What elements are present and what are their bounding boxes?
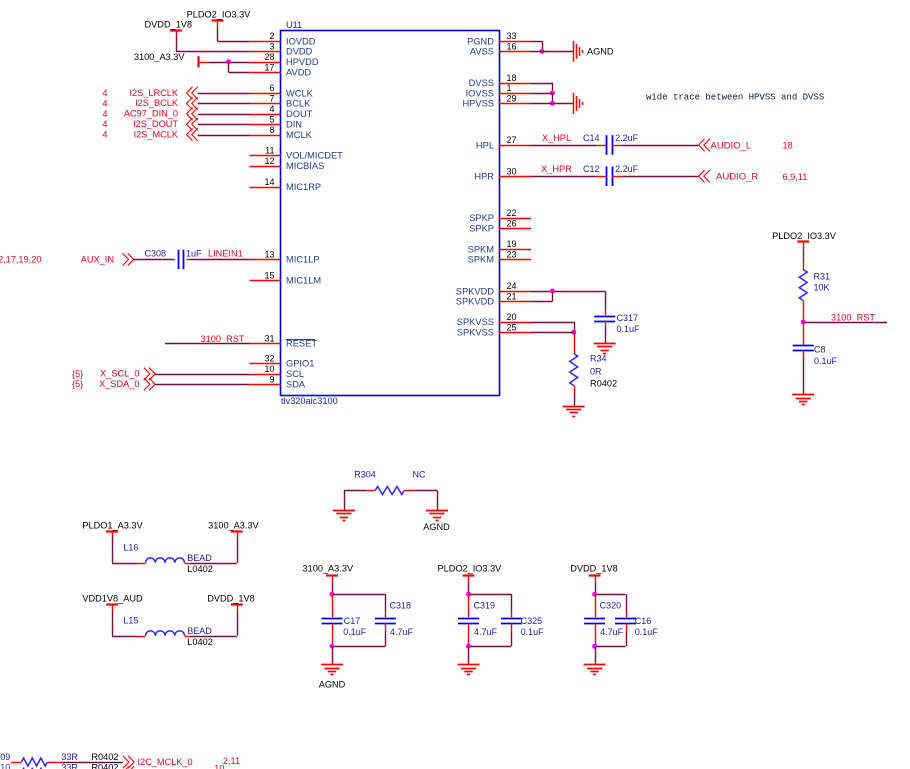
svg-text:AGND: AGND — [423, 522, 450, 532]
svg-text:30: 30 — [507, 166, 517, 176]
svg-text:4: 4 — [269, 104, 274, 114]
pin 9 SDA — [250, 374, 306, 389]
svg-text:AC97_DIN_0: AC97_DIN_0 — [124, 109, 178, 119]
wire R304 to AGND — [404, 491, 437, 511]
svg-text:I2C_MCLK_0: I2C_MCLK_0 — [138, 757, 193, 767]
svg-text:HPVDD: HPVDD — [286, 57, 319, 67]
node junction bottom (group DVDD_1V8) — [592, 644, 597, 649]
svg-text:AUDIO_L: AUDIO_L — [711, 140, 752, 151]
pin 20 SPKVSS — [457, 312, 531, 327]
svg-text:32: 32 — [264, 354, 274, 364]
wire R31 to junction — [803, 301, 805, 323]
svg-text:AGND: AGND — [587, 47, 614, 57]
port AUDIO_R with sheet refs 6,9,11 — [699, 170, 808, 183]
capacitor C308 1uF — [145, 248, 203, 269]
net label 3100_RST (pullup) — [831, 313, 875, 323]
svg-text:6,9,11: 6,9,11 — [783, 172, 808, 182]
svg-text:0.1uF: 0.1uF — [617, 324, 641, 334]
svg-text:10K: 10K — [814, 282, 830, 292]
svg-text:SPKVSS: SPKVSS — [457, 328, 494, 338]
svg-text:PGND: PGND — [467, 36, 494, 46]
wire X_SCL_0 to pin — [155, 374, 249, 376]
wire to ground (group DVDD_1V8) — [595, 646, 597, 664]
svg-text:L0402: L0402 — [187, 637, 213, 647]
power symbol 3100_A3.3V (cap group) — [303, 564, 354, 583]
svg-text:SPKVSS: SPKVSS — [457, 317, 494, 327]
wire AVSS net to AGND symbol — [531, 51, 573, 53]
port I2S_DOUT with sheet ref 4 — [102, 118, 197, 130]
svg-text:BEAD: BEAD — [187, 553, 212, 563]
wire I2S_MCLK to pin — [198, 135, 250, 137]
wire bottom rail (group DVDD_1V8) — [595, 624, 627, 647]
wire 3100_RST to right edge — [803, 322, 887, 324]
inductor L15 BEAD L0402 — [123, 616, 212, 648]
node junction bottom (group PLDO2_IO3.3V) — [466, 644, 471, 649]
svg-text:PLDO2_IO3.3V: PLDO2_IO3.3V — [437, 564, 502, 574]
svg-text:33R: 33R — [61, 762, 78, 769]
wire DVDD_1V8 to pin 3 — [176, 38, 250, 52]
pin 19 SPKM — [468, 239, 531, 254]
port X_SCL_0 with sheet ref {5} — [72, 368, 155, 380]
wire 3100_A3.3V rail — [332, 583, 334, 594]
svg-text:12: 12 — [264, 156, 274, 166]
capacitor C14 2.2uF — [583, 133, 639, 155]
pin 15 MIC1LM — [250, 270, 322, 285]
svg-text:X_HPL: X_HPL — [542, 133, 571, 143]
svg-text:7: 7 — [269, 94, 274, 104]
net label 3100_RST at RESET — [201, 334, 245, 344]
wire 3100_RST to pin 31 RESET — [165, 343, 250, 345]
ground below C317 — [594, 344, 616, 354]
svg-text:PLDO2_IO3.3V: PLDO2_IO3.3V — [772, 231, 837, 241]
svg-text:0.1uF: 0.1uF — [343, 627, 367, 637]
svg-text:19: 19 — [507, 239, 517, 249]
wire DVDD_1V8 rail — [595, 583, 597, 594]
svg-text:DVDD_1V8: DVDD_1V8 — [145, 20, 193, 30]
capacitor C12 2.2uF — [583, 164, 639, 186]
pin 6 WCLK — [250, 83, 314, 98]
svg-text:L16: L16 — [123, 543, 138, 553]
svg-text:22: 22 — [507, 208, 517, 218]
resistor R34 0R R0402 — [570, 354, 617, 389]
pin 29 HPVSS — [462, 94, 531, 109]
pin 17 AVDD — [250, 62, 312, 77]
wire C14 to port AUDIO_L — [612, 145, 699, 147]
node junction top (group 3100_A3.3V) — [330, 592, 335, 597]
svg-text:9: 9 — [269, 374, 274, 384]
svg-text:SPKP: SPKP — [469, 224, 494, 234]
wire pin 21 SPKVDD up — [531, 291, 553, 302]
svg-text:VOL/MICDET: VOL/MICDET — [286, 151, 343, 161]
pin 14 MIC1RP — [250, 177, 322, 192]
power symbol DVDD_1V8 (cap group) — [570, 564, 618, 583]
wire to ground (group 3100_A3.3V) — [332, 646, 334, 664]
wire I2S_BCLK to pin — [198, 103, 250, 105]
svg-text:C325: C325 — [521, 616, 543, 626]
svg-text:SPKVDD: SPKVDD — [456, 297, 495, 307]
wire to ground (group PLDO2_IO3.3V) — [468, 646, 470, 664]
svg-text:MCLK: MCLK — [286, 130, 313, 140]
svg-text:C317: C317 — [617, 313, 639, 323]
capacitor C325 0.1uF — [501, 616, 544, 637]
resistor R310 33R R0402 (row clipped at bottom) — [0, 762, 118, 769]
pin 2 IOVDD — [250, 31, 316, 46]
wire I2S_LRCLK to pin — [198, 93, 250, 95]
svg-text:BCLK: BCLK — [286, 99, 311, 109]
svg-text:WCLK: WCLK — [286, 88, 314, 98]
power symbol VDD1V8_AUD — [82, 594, 143, 611]
svg-text:3100_A3.3V: 3100_A3.3V — [303, 564, 354, 574]
svg-text:C318: C318 — [390, 600, 412, 610]
svg-text:4.7uF: 4.7uF — [600, 627, 624, 637]
svg-text:3100_A3.3V: 3100_A3.3V — [208, 520, 259, 530]
svg-text:C308: C308 — [145, 248, 167, 258]
svg-text:0.1uF: 0.1uF — [521, 627, 545, 637]
svg-text:5: 5 — [269, 114, 274, 124]
port AUX_IN with sheet refs 2,17,19,20 — [0, 253, 134, 265]
pin 7 BCLK — [250, 94, 312, 109]
svg-text:29: 29 — [507, 94, 517, 104]
capacitor C16 0.1uF — [615, 616, 658, 637]
svg-text:2.2uF: 2.2uF — [615, 133, 639, 143]
svg-text:X_SCL_0: X_SCL_0 — [100, 369, 139, 379]
wire I2S_DOUT to pin — [198, 124, 250, 126]
svg-text:IOVDD: IOVDD — [286, 36, 316, 46]
pin 32 GPIO1 — [250, 354, 315, 369]
svg-text:1uF: 1uF — [186, 248, 202, 258]
power symbol DVDD_1V8 — [145, 20, 193, 39]
wire L15 to DVDD_1V8 — [185, 604, 238, 637]
node junction SPKVSS — [571, 330, 576, 335]
svg-text:MICBIAS: MICBIAS — [286, 161, 324, 171]
svg-text:4: 4 — [102, 88, 107, 98]
svg-text:AUDIO_R: AUDIO_R — [716, 172, 758, 183]
svg-text:{5}: {5} — [72, 379, 83, 389]
svg-text:X_HPR: X_HPR — [541, 164, 572, 174]
wire AC97_DIN_0 to pin — [198, 114, 250, 116]
wire junction to R34 — [574, 332, 576, 353]
svg-text:11: 11 — [265, 146, 274, 156]
node junction top (group DVDD_1V8) — [592, 592, 597, 597]
op-amp U11 tlv320aic3100 IC body — [281, 20, 500, 406]
svg-text:3100_A3.3V: 3100_A3.3V — [134, 52, 185, 62]
pin 25 SPKVSS — [457, 322, 531, 337]
svg-text:R0402: R0402 — [590, 378, 617, 388]
svg-text:3100_RST: 3100_RST — [201, 334, 245, 344]
svg-text:R31: R31 — [814, 272, 831, 282]
svg-text:tlv320aic3100: tlv320aic3100 — [281, 396, 338, 406]
port X_SDA_0 with sheet ref {5} — [72, 378, 155, 390]
ground below R34 — [563, 407, 585, 417]
svg-text:13: 13 — [264, 250, 274, 260]
svg-text:2,17,19,20: 2,17,19,20 — [0, 255, 41, 265]
node junction IOVSS — [550, 91, 555, 96]
wire VDD1V8_AUD to L15 — [112, 611, 146, 637]
svg-text:HPL: HPL — [476, 140, 494, 150]
wire PLDO2_IO3.3V to pin 2 — [217, 28, 249, 42]
wire left ground to R304 — [344, 491, 375, 511]
svg-text:8: 8 — [269, 125, 274, 135]
net label X_HPR — [541, 164, 572, 174]
ground below group DVDD_1V8 — [584, 665, 606, 675]
svg-text:SPKP: SPKP — [469, 213, 494, 223]
svg-text:BEAD: BEAD — [187, 626, 212, 636]
pin 1 IOVSS — [466, 83, 531, 98]
svg-text:6: 6 — [269, 83, 274, 93]
ground below C8 — [792, 395, 814, 405]
svg-text:3: 3 — [269, 42, 274, 52]
svg-text:I2S_MCLK: I2S_MCLK — [134, 129, 179, 139]
svg-text:4: 4 — [102, 130, 107, 140]
svg-text:PLDO1_A3.3V: PLDO1_A3.3V — [82, 520, 143, 530]
wire bottom rail (group PLDO2_IO3.3V) — [469, 624, 512, 647]
svg-text:1: 1 — [507, 83, 512, 93]
wire junction to C8 — [803, 322, 805, 345]
port I2S_BCLK with sheet ref 4 — [102, 97, 197, 109]
power symbol DVDD_1V8 (L15) — [207, 594, 255, 605]
svg-text:R0402: R0402 — [91, 752, 118, 762]
svg-text:17: 17 — [264, 62, 274, 72]
port AC97_DOUT_0 with sheet ref 10 — [123, 764, 225, 769]
svg-text:20: 20 — [507, 312, 517, 322]
svg-text:R310: R310 — [0, 762, 10, 769]
wire left cap leads — [332, 594, 334, 617]
note wide trace between HPVSS and DVSS — [646, 93, 824, 103]
pin 5 DIN — [250, 114, 303, 129]
ground left of R304 — [333, 511, 355, 521]
pin 33 PGND — [467, 31, 531, 46]
svg-text:C14: C14 — [583, 133, 600, 143]
svg-text:SPKM: SPKM — [468, 255, 494, 265]
node junction top (group PLDO2_IO3.3V) — [466, 592, 471, 597]
wire pin 25 SPKVSS — [531, 332, 574, 334]
svg-text:DVDD: DVDD — [286, 47, 313, 57]
svg-text:C319: C319 — [474, 600, 496, 610]
wire pin 33 PGND down to AVSS net — [531, 41, 543, 51]
svg-text:R34: R34 — [590, 354, 607, 364]
svg-text:DIN: DIN — [286, 120, 302, 130]
svg-text:MIC1LP: MIC1LP — [286, 255, 320, 265]
wire pin 24 SPKVDD to C317 — [531, 291, 605, 293]
pin 8 MCLK — [250, 125, 313, 140]
svg-text:R309: R309 — [0, 752, 10, 762]
wire power to R31 — [803, 250, 805, 270]
wire top rail to right cap — [332, 594, 386, 617]
svg-text:LINEIN1: LINEIN1 — [208, 248, 243, 258]
svg-text:4: 4 — [102, 109, 107, 119]
svg-text:26: 26 — [507, 218, 517, 228]
svg-text:C16: C16 — [635, 616, 652, 626]
net label LINEIN1 — [208, 248, 243, 258]
wire pin 29 HPVSS to ground — [531, 103, 573, 105]
svg-text:wide trace between HPVSS and D: wide trace between HPVSS and DVSS — [646, 93, 824, 103]
net label X_HPL — [542, 133, 571, 143]
wire R309 to port I2C_MCLK_0 — [61, 762, 123, 764]
ground below group 3100_A3.3V — [319, 665, 346, 690]
svg-text:10: 10 — [264, 364, 274, 374]
resistor R304 NC — [354, 469, 426, 494]
svg-text:I2S_LRCLK: I2S_LRCLK — [129, 88, 178, 98]
node junction AVSS/PGND — [540, 49, 545, 54]
node junction SPKVDD — [550, 289, 555, 294]
svg-text:R304: R304 — [354, 469, 376, 479]
wire pin 1 IOVSS — [531, 93, 553, 103]
wire pin to C14 — [531, 145, 606, 147]
svg-text:14: 14 — [264, 177, 274, 187]
pin 22 SPKP — [469, 208, 531, 223]
svg-text:10: 10 — [214, 764, 224, 769]
svg-text:PLDO2_IO3.3V: PLDO2_IO3.3V — [187, 10, 252, 20]
wire pin to C12 — [531, 176, 606, 178]
pin 11 VOL/MICDET — [250, 146, 344, 161]
svg-text:0.1uF: 0.1uF — [635, 627, 659, 637]
svg-text:I2S_DOUT: I2S_DOUT — [133, 119, 178, 129]
svg-text:4: 4 — [102, 98, 107, 108]
wire bottom rail (group 3100_A3.3V) — [332, 624, 386, 647]
capacitor C17 0.1uF — [322, 616, 367, 637]
svg-text:MIC1LM: MIC1LM — [286, 276, 321, 286]
power symbol PLDO2_IO3.3V (cap group) — [437, 564, 502, 583]
svg-text:L0402: L0402 — [187, 564, 213, 574]
wire 3100_A3.3V to pin 28 — [208, 62, 249, 64]
svg-text:21: 21 — [507, 292, 517, 302]
resistor R31 10K — [799, 270, 830, 301]
svg-text:MIC1RP: MIC1RP — [286, 182, 321, 192]
svg-text:NC: NC — [413, 469, 426, 479]
svg-text:AUX_IN: AUX_IN — [81, 255, 114, 265]
ground AGND right of R304 — [423, 511, 450, 532]
svg-text:C17: C17 — [344, 616, 361, 626]
inductor L16 BEAD L0402 — [123, 543, 212, 574]
wire down to C317 — [605, 291, 607, 316]
pin 27 HPL — [476, 135, 531, 150]
ground AGND (PGND/AVSS) — [574, 41, 614, 62]
pin 12 MICBIAS — [250, 156, 325, 171]
wire top rail to right cap — [469, 594, 512, 617]
svg-text:4.7uF: 4.7uF — [390, 627, 414, 637]
svg-text:2.2uF: 2.2uF — [615, 164, 639, 174]
svg-text:27: 27 — [507, 135, 517, 145]
svg-text:4.7uF: 4.7uF — [474, 627, 498, 637]
wire C8 to ground — [803, 350, 805, 394]
svg-text:SPKM: SPKM — [468, 244, 494, 254]
port I2C_MCLK_0 with sheet refs 2,11 — [123, 756, 240, 768]
power symbol PLDO2_IO3.3V (R31 branch) — [772, 231, 837, 250]
svg-text:23: 23 — [507, 250, 517, 260]
wire L16 to 3100_A3.3V — [185, 531, 238, 564]
svg-text:28: 28 — [264, 52, 274, 62]
svg-text:HPVSS: HPVSS — [462, 99, 494, 109]
pin 10 SCL — [250, 364, 305, 379]
capacitor C317 0.1uF — [594, 313, 640, 334]
svg-text:18: 18 — [783, 141, 793, 151]
svg-text:X_SDA_0: X_SDA_0 — [99, 379, 139, 389]
svg-text:25: 25 — [507, 322, 517, 332]
svg-text:C8: C8 — [814, 344, 826, 354]
svg-text:IOVSS: IOVSS — [466, 88, 494, 98]
svg-text:2: 2 — [269, 31, 274, 41]
wire PLDO2_IO3.3V rail — [468, 583, 470, 594]
wire pin 20 SPKVSS down — [531, 322, 575, 332]
capacitor C318 4.7uF — [375, 600, 414, 637]
wire C308 to pin 13 MIC1LP — [186, 259, 249, 261]
ground (HPVSS/DVSS/IOVSS) — [574, 93, 583, 114]
pin 31 RESET — [250, 334, 318, 349]
wire X_SDA_0 to pin — [155, 384, 249, 386]
svg-text:L15: L15 — [123, 616, 138, 626]
wire R34 to ground — [574, 386, 576, 406]
capacitor C319 4.7uF — [458, 600, 498, 637]
pin 18 DVSS — [469, 73, 531, 88]
svg-text:SDA: SDA — [286, 380, 306, 390]
svg-text:R0402: R0402 — [91, 762, 118, 769]
svg-text:U11: U11 — [286, 20, 302, 30]
svg-text:2,11: 2,11 — [223, 756, 240, 766]
node junction bottom (group 3100_A3.3V) — [330, 644, 335, 649]
pin 28 HPVDD — [250, 52, 319, 67]
power symbol 3100_A3.3V (L16) — [208, 520, 259, 531]
pin 16 AVSS — [470, 42, 531, 57]
pin 21 SPKVDD — [456, 292, 531, 307]
wire AUX_IN to C308 — [134, 259, 176, 261]
wire left cap leads — [595, 594, 597, 617]
svg-text:HPR: HPR — [474, 172, 494, 182]
wire pin 18 DVSS down — [531, 83, 553, 93]
svg-text:AGND: AGND — [319, 680, 346, 690]
power symbol 3100_A3.3V (left of pin 28) — [134, 52, 208, 68]
pin 13 MIC1LP — [250, 250, 320, 265]
svg-text:C320: C320 — [600, 600, 622, 610]
svg-text:0R: 0R — [590, 367, 602, 377]
wire junction to pin 17 AVDD — [229, 62, 250, 73]
svg-text:18: 18 — [507, 73, 517, 83]
ground below group PLDO2_IO3.3V — [458, 665, 480, 675]
svg-text:I2S_BCLK: I2S_BCLK — [135, 98, 179, 108]
port AC97_DIN_0 with sheet ref 4 — [102, 108, 197, 120]
svg-text:C12: C12 — [583, 164, 600, 174]
svg-text:SPKVDD: SPKVDD — [456, 286, 495, 296]
svg-text:{5}: {5} — [72, 369, 83, 379]
svg-text:DVDD_1V8: DVDD_1V8 — [570, 564, 618, 574]
svg-text:0.1uF: 0.1uF — [814, 356, 838, 366]
svg-text:15: 15 — [264, 270, 274, 280]
svg-text:DVDD_1V8: DVDD_1V8 — [207, 594, 255, 604]
port I2S_MCLK with sheet ref 4 — [102, 128, 197, 140]
svg-text:31: 31 — [264, 334, 274, 344]
resistor R309 33R R0402 (row clipped at left) — [0, 752, 118, 766]
node junction at HPVDD wire — [226, 59, 231, 64]
pin 3 DVDD — [250, 42, 313, 57]
svg-text:VDD1V8_AUD: VDD1V8_AUD — [82, 594, 143, 604]
pin 4 DOUT — [250, 104, 313, 119]
pin 30 HPR — [474, 166, 531, 181]
power symbol PLDO1_A3.3V — [82, 520, 143, 538]
capacitor C320 4.7uF — [584, 600, 624, 637]
svg-text:24: 24 — [507, 281, 517, 291]
port I2S_LRCLK with sheet ref 4 — [102, 87, 197, 99]
svg-text:DOUT: DOUT — [286, 109, 313, 119]
wire C317 to ground — [605, 321, 607, 343]
svg-text:16: 16 — [507, 42, 517, 52]
port AUDIO_L with sheet refs 18 — [699, 139, 793, 152]
capacitor C8 0.1uF — [793, 344, 838, 366]
svg-text:AVSS: AVSS — [470, 47, 494, 57]
svg-text:SCL: SCL — [286, 369, 304, 379]
svg-text:AVDD: AVDD — [286, 68, 311, 78]
node junction 3100_RST — [801, 320, 806, 325]
svg-text:4: 4 — [102, 119, 107, 129]
svg-text:DVSS: DVSS — [469, 78, 494, 88]
